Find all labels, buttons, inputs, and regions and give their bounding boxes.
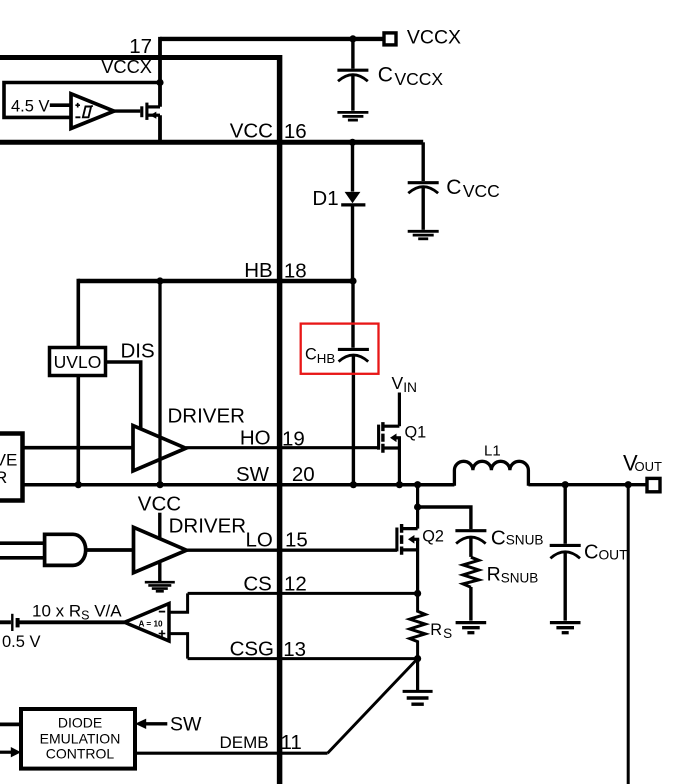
wire upper input to DEC box [0, 723, 21, 727]
svg-text:18: 18 [284, 260, 307, 283]
svg-text:CS: CS [243, 573, 271, 596]
node dot snubber tap [414, 503, 421, 510]
wire HB net pin 18 [78, 279, 353, 284]
capacitor COUT [550, 485, 581, 621]
svg-text:4.5 V: 4.5 V [11, 98, 50, 116]
svg-text:A = 10: A = 10 [139, 619, 163, 628]
svg-text:19: 19 [282, 427, 305, 450]
capacitor CHB [338, 281, 369, 485]
svg-text:0.5 V: 0.5 V [2, 633, 41, 651]
ground below CVCCX [337, 112, 368, 120]
transistor Q1 [379, 422, 401, 485]
svg-text:DRIVER: DRIVER [168, 405, 245, 428]
svg-text:EMULATION: EMULATION [40, 730, 121, 746]
svg-text:RS: RS [430, 621, 452, 641]
diode D1 [341, 142, 365, 281]
svg-text:L1: L1 [484, 442, 501, 459]
wire CSG jog to amp plus [169, 634, 188, 659]
node dot VCC D1 [349, 139, 356, 146]
svg-text:11: 11 [281, 731, 302, 754]
svg-text:R: R [0, 468, 7, 487]
wire diagonal DEMB to RS CSG node [328, 659, 418, 754]
node dot SW Q1 source [396, 481, 403, 488]
wire SW arrow into DEC box [135, 719, 167, 729]
red highlight box around CHB [301, 324, 379, 374]
wire VIN to Q1 drain [398, 393, 401, 427]
block diode emulation control [21, 709, 135, 769]
svg-text:VCCX: VCCX [407, 27, 461, 49]
ground below LO driver [145, 582, 175, 591]
wire LO net pin 15 [187, 549, 398, 552]
ground below CVCC [408, 231, 439, 239]
op-amp LO driver triangle [134, 527, 187, 572]
block UVLO [50, 348, 106, 376]
svg-text:LO: LO [245, 529, 272, 552]
op-amp current sense A=10 [125, 604, 170, 642]
svg-text:VCC: VCC [230, 120, 273, 143]
battery 0.5V [0, 614, 18, 631]
wire lower input with arrow to DEC box [0, 747, 21, 757]
svg-text:RSNUB: RSNUB [487, 563, 539, 585]
wire HO net pin 19 [186, 446, 378, 449]
capacitor CSNUB [455, 531, 486, 557]
transistor PMOS VCCX switch [142, 103, 160, 120]
ground below RSNUB [456, 623, 487, 633]
node dot HB driver rail [156, 277, 163, 284]
op-amp HO driver triangle [133, 426, 186, 471]
svg-text:COUT: COUT [584, 541, 628, 563]
wire amp output to battery [19, 620, 124, 624]
wire RS to ground [416, 659, 419, 691]
wire VCCX internal node loop [4, 83, 160, 118]
wire snubber branch [418, 507, 471, 529]
node dot CS RS [414, 590, 421, 597]
wire Q2 drain to SW [416, 485, 419, 529]
wire CSG net pin 13 [188, 657, 418, 660]
ground below RS [403, 691, 433, 704]
svg-text:15: 15 [285, 529, 308, 552]
wire SW net pin 20 [23, 483, 455, 487]
svg-text:HB: HB [244, 259, 272, 282]
wire CS net pin 12 [188, 592, 418, 595]
wire HB to UVLO [77, 279, 81, 348]
wire IC top edge [0, 55, 280, 60]
node dot CSG RS [414, 655, 421, 662]
svg-text:SW: SW [170, 713, 202, 735]
terminal VOUT square [647, 478, 660, 491]
terminal VCCX square [384, 33, 396, 45]
resistor RSNUB [463, 557, 479, 587]
wire DIS [106, 362, 141, 430]
capacitor CVCC [408, 142, 439, 230]
svg-text:UVLO: UVLO [54, 352, 102, 372]
svg-text:DIODE: DIODE [58, 714, 102, 730]
wire VOUT feedback drop [627, 485, 630, 784]
svg-text:CSNUB: CSNUB [491, 526, 544, 549]
svg-text:12: 12 [284, 573, 307, 596]
wire VCC to LO driver [158, 513, 161, 539]
node dot at VCCX internal [156, 79, 163, 86]
ground below COUT [550, 623, 581, 633]
svg-text:17: 17 [129, 35, 152, 58]
svg-text:HO: HO [240, 426, 271, 449]
node junction dot VCCX net [349, 35, 356, 42]
wire comparator output to PMOS gate [114, 109, 140, 112]
svg-text:VCC: VCC [138, 493, 181, 516]
wire DEMB net pin 11 [135, 752, 328, 755]
node dot SW CHB [350, 481, 357, 488]
svg-text:CSG: CSG [230, 638, 274, 661]
wire LO driver to ground [158, 561, 161, 581]
wire SW to VOUT terminal [528, 483, 647, 486]
svg-text:13: 13 [283, 638, 306, 661]
svg-text:CHB: CHB [305, 345, 335, 366]
svg-text:D1: D1 [312, 187, 338, 210]
node dot SW Q2 drain [414, 481, 421, 488]
node dot COUT tap [562, 481, 569, 488]
wire CS jog to amp minus [169, 593, 188, 612]
node dot VOUT feedback tap [625, 481, 632, 488]
svg-text:20: 20 [292, 463, 315, 486]
block level shifter cut off at left edge [0, 434, 23, 501]
wire HO driver input [23, 446, 134, 450]
svg-text:VOUT: VOUT [623, 450, 662, 475]
svg-text:DIS: DIS [121, 340, 155, 363]
svg-text:CVCCX: CVCCX [378, 64, 444, 89]
svg-text:VE: VE [0, 450, 17, 469]
wire 4.5V to comparator plus input [50, 103, 71, 107]
svg-text:DRIVER: DRIVER [169, 515, 246, 538]
node dot HB CHB [349, 277, 356, 284]
svg-text:16: 16 [284, 120, 307, 143]
svg-text:SW: SW [236, 463, 270, 486]
svg-text:Q2: Q2 [422, 528, 444, 546]
svg-text:DEMB: DEMB [219, 733, 268, 752]
op-amp VCCX comparator [71, 94, 114, 129]
capacitor CVCCX [337, 39, 368, 111]
transistor Q2 [397, 524, 419, 593]
svg-text:VIN: VIN [392, 373, 418, 395]
gate AND [0, 534, 134, 565]
resistor RS [410, 593, 425, 658]
wire UVLO to SW [77, 376, 81, 485]
svg-text:10 x RS V/A: 10 x RS V/A [32, 602, 122, 623]
wire RSNUB to ground [469, 587, 472, 621]
svg-text:CONTROL: CONTROL [46, 746, 115, 762]
wire pin 17 vertical drop [158, 37, 162, 142]
wire HB to HO driver rail [158, 281, 161, 485]
svg-text:VCCX: VCCX [101, 56, 152, 77]
wire VCC net pin 16 [0, 140, 423, 145]
wire IC right-edge pin bus [277, 55, 283, 784]
node dot SW driver rail [156, 481, 163, 488]
inductor L1 [454, 461, 528, 485]
svg-text:CVCC: CVCC [446, 176, 500, 201]
wire pin 17 VCCX net horizontal [160, 37, 383, 41]
node dot SW UVLO [75, 481, 82, 488]
svg-text:Q1: Q1 [405, 424, 427, 442]
